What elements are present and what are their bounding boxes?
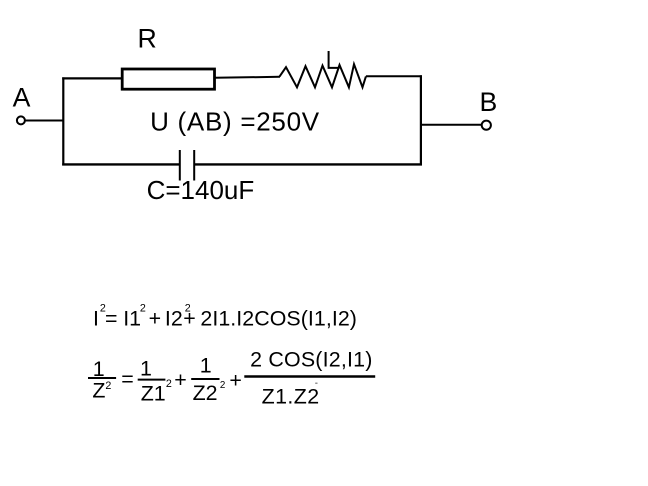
wire right vertical — [420, 75, 422, 165]
resistor R box — [122, 69, 214, 89]
capacitor C right plate — [193, 150, 195, 181]
svg-text:2I1.I2COS(I1,I2): 2I1.I2COS(I1,I2) — [200, 307, 357, 331]
fraction3 bar — [191, 378, 219, 380]
wire left vertical — [62, 77, 64, 165]
label L (drawn strokes) — [329, 51, 340, 68]
inductor L zigzag — [280, 64, 366, 87]
svg-text:+: + — [229, 369, 242, 393]
fraction1 bar — [88, 377, 116, 379]
stray pencil dash under fraction4 bar — [315, 382, 317, 384]
svg-text:2: 2 — [105, 380, 111, 392]
fraction4 bar — [244, 375, 375, 377]
svg-text:+: + — [174, 368, 187, 392]
svg-text:2: 2 — [140, 303, 146, 315]
svg-text:I: I — [93, 307, 99, 331]
svg-text:=: = — [121, 367, 134, 391]
svg-text:U (AB) =250V: U (AB) =250V — [150, 107, 320, 137]
wire bottom left segment — [62, 163, 180, 165]
svg-text:I2: I2 — [165, 307, 183, 331]
svg-text:Z1.Z2: Z1.Z2 — [262, 385, 320, 409]
svg-text:+: + — [149, 307, 162, 331]
svg-text:2 COS(I2,I1): 2 COS(I2,I1) — [250, 348, 372, 372]
wire inductor to right vertical — [366, 75, 422, 77]
svg-text:1: 1 — [140, 356, 152, 380]
wire top left horizontal — [62, 77, 122, 79]
svg-text:+: + — [183, 307, 196, 331]
terminal A circle — [17, 116, 25, 124]
svg-text:=: = — [105, 307, 118, 331]
wire resistor to inductor — [215, 77, 281, 78]
svg-text:C=140uF: C=140uF — [147, 175, 255, 205]
svg-text:Z2: Z2 — [193, 381, 218, 405]
wire to terminal B — [421, 124, 482, 126]
capacitor C left plate — [179, 150, 181, 181]
svg-text:2: 2 — [166, 378, 172, 390]
svg-text:Z1: Z1 — [141, 381, 166, 405]
fraction2 bar — [138, 379, 166, 381]
svg-text:I1: I1 — [123, 307, 141, 331]
svg-text:Z: Z — [92, 379, 105, 403]
svg-text:A: A — [13, 83, 31, 113]
terminal B circle — [482, 121, 491, 130]
svg-text:B: B — [480, 87, 498, 117]
wire from terminal A to left vertical — [25, 120, 64, 122]
svg-text:2: 2 — [220, 380, 225, 391]
svg-text:1: 1 — [200, 354, 212, 378]
svg-text:R: R — [138, 24, 157, 54]
wire bottom right segment — [194, 163, 422, 165]
